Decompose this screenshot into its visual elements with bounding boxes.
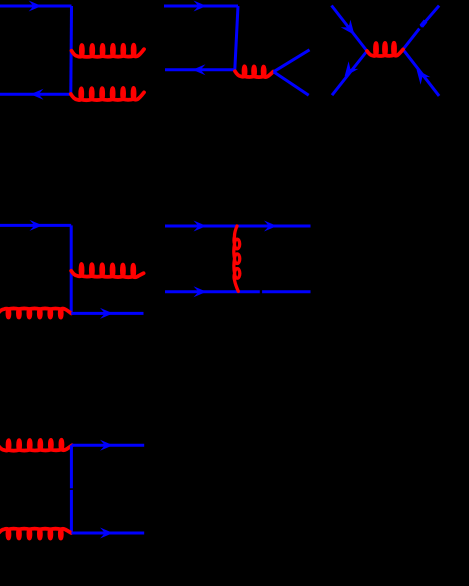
D2 incoming quark line (top) xyxy=(164,5,238,8)
D1 incoming quark line (top) xyxy=(0,5,72,8)
D6 outgoing quark line (bottom) xyxy=(71,532,144,535)
D3 incoming antiquark line (lower-right leg) xyxy=(403,49,439,96)
D3 incoming quark line (upper-left leg) xyxy=(332,6,368,52)
D6 internal quark propagator (vertical, two segments with gap) xyxy=(70,445,73,488)
D3 arrow toward vertex on upper-left leg xyxy=(341,20,355,35)
D2 outgoing antiquark line (fork lower) xyxy=(274,72,309,96)
D1 arrow left on bottom quark line xyxy=(31,89,44,100)
D5 arrow 2 on top quark line xyxy=(264,221,277,232)
D3 thick mark above gap on upper-right leg xyxy=(421,21,425,26)
D3 upper-right leg (two segments with gap) xyxy=(421,6,439,27)
D2 arrow left on middle quark line xyxy=(193,64,206,75)
D5 gluon propagator (vertical t-channel) xyxy=(234,226,240,291)
D1 gluon g2 (lower, emitted right) xyxy=(71,88,144,100)
D4 internal quark propagator (vertical) xyxy=(70,225,73,313)
D4 arrow right on top quark line xyxy=(30,220,43,231)
D3 outgoing quark line (lower-left leg) xyxy=(332,51,367,95)
D4 incoming quark line (top) xyxy=(0,224,71,227)
D1 internal quark propagator (vertical) xyxy=(69,6,73,94)
D2 gluon propagator (short) xyxy=(235,66,273,77)
D4 emitted gluon (right) xyxy=(71,264,143,277)
D3 gluon propagator (s-channel) xyxy=(367,43,403,56)
D5 arrow 1 on top quark line xyxy=(194,221,207,232)
D1 incoming antiquark line (bottom) xyxy=(0,93,71,96)
D6 incoming gluon (bottom, loops down) xyxy=(0,529,71,539)
D6 arrow right on top outgoing quark line xyxy=(100,440,113,451)
D6 incoming gluon (top, loops up) xyxy=(0,440,72,451)
D2 incoming antiquark line (middle) xyxy=(165,68,235,71)
D1 arrow right on top quark line xyxy=(29,1,42,12)
D4 outgoing quark line (bottom-right) xyxy=(71,312,143,315)
D3 arrow toward vertex on lower-right leg xyxy=(417,69,431,84)
D2 arrow right on top quark line xyxy=(194,1,207,12)
D4 arrow right on outgoing quark line xyxy=(100,308,113,319)
D5 top quark line xyxy=(165,225,311,228)
D6 outgoing quark line (top) xyxy=(72,444,145,447)
D5 bottom quark line (two segments with gap) xyxy=(165,290,260,293)
D5 arrow on bottom quark line xyxy=(194,286,207,297)
D2 outgoing quark line (fork upper) xyxy=(274,50,310,72)
D2 internal quark propagator (slanted vertical) xyxy=(235,6,238,70)
D6 arrow right on bottom outgoing quark line xyxy=(100,528,113,539)
D1 gluon g1 (upper, emitted right) xyxy=(72,45,144,57)
D3 arrow away from vertex on lower-left leg xyxy=(345,61,359,76)
D4 incoming gluon (lower-left, loops down) xyxy=(0,308,71,317)
